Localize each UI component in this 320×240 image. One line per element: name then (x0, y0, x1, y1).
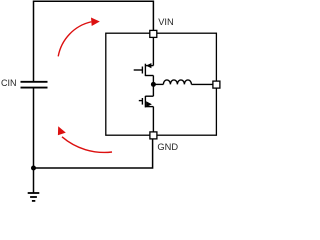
current loop arrow (bottom, return loop) (58, 126, 112, 152)
transistor Q1 (high-side MOSFET) (134, 37, 154, 84)
svg-text:VIN: VIN (158, 17, 174, 27)
current loop arrow (top, input loop) (58, 18, 100, 57)
wire: outer left from CIN down to ground node (33, 88, 35, 168)
pin SW (right edge) (213, 81, 220, 88)
node SW junction (151, 82, 156, 87)
svg-text:GND: GND (157, 142, 178, 152)
inductor L1 (153, 80, 213, 85)
wire: outer bottom from ground node to GND pin (34, 139, 153, 168)
svg-text:CIN: CIN (1, 78, 17, 88)
IC outline U1 (106, 33, 217, 135)
arrow of Q1 (points left into channel) (146, 63, 151, 68)
junction: input ground node (31, 166, 36, 171)
transistor Q2 (low-side MOSFET) (139, 84, 154, 131)
pin VIN (150, 30, 157, 37)
wire: outer top from CIN up and across to VIN pin (34, 1, 154, 82)
arrow of Q2 (points right toward source corner) (146, 101, 152, 107)
capacitor CIN (21, 82, 48, 88)
ground (28, 168, 40, 201)
pin GND (150, 132, 157, 139)
